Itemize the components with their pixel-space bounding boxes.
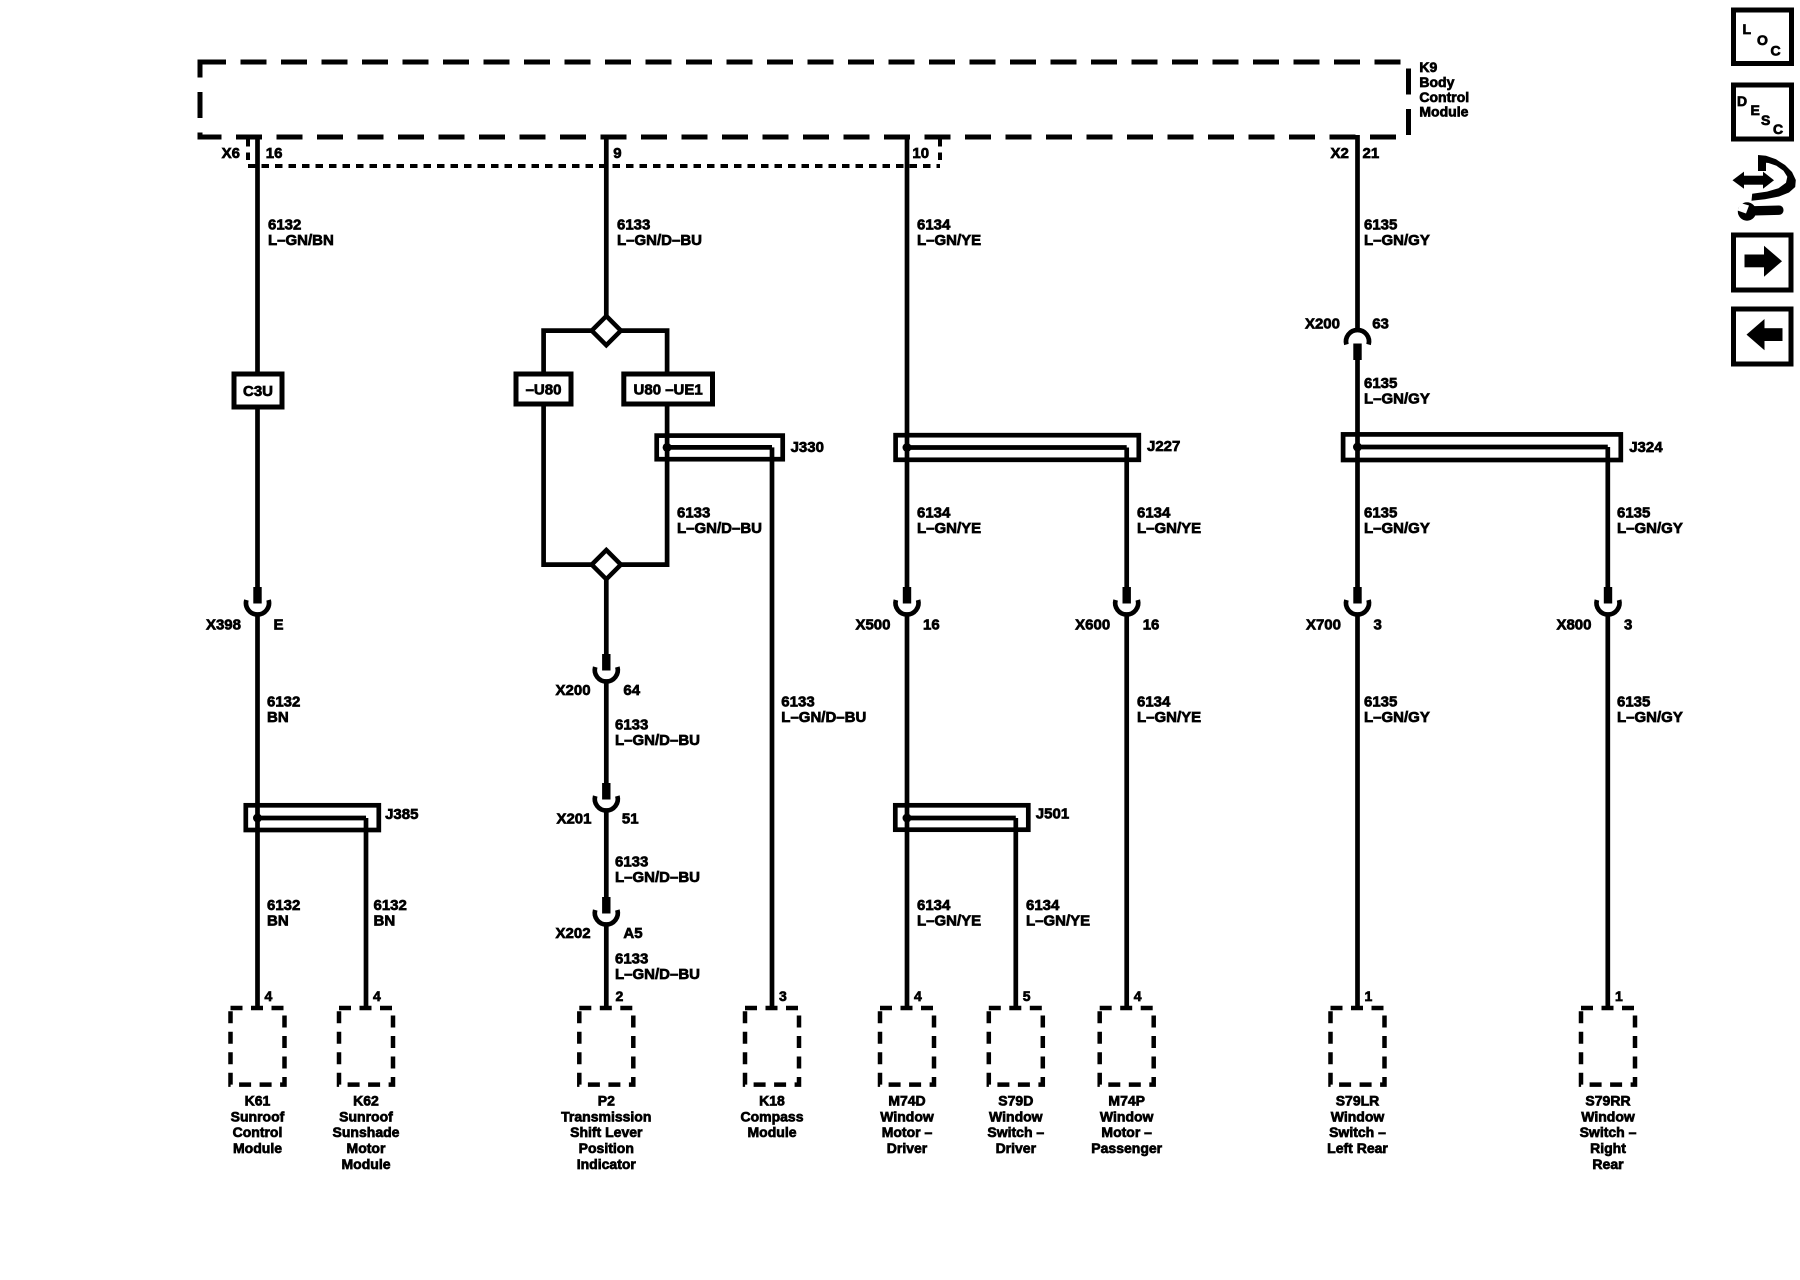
svg-text:X700: X700: [1306, 617, 1341, 634]
svg-text:L–GN/D–BU: L–GN/D–BU: [615, 869, 700, 886]
svg-text:J227: J227: [1147, 438, 1180, 455]
svg-text:BN: BN: [374, 913, 396, 930]
svg-text:Left Rear: Left Rear: [1327, 1140, 1388, 1156]
svg-text:Switch –: Switch –: [987, 1124, 1044, 1140]
svg-text:K62: K62: [353, 1093, 379, 1109]
svg-text:6135: 6135: [1364, 375, 1397, 392]
svg-text:3: 3: [1374, 617, 1382, 634]
svg-text:S79D: S79D: [998, 1093, 1033, 1109]
svg-text:Window: Window: [989, 1108, 1043, 1124]
svg-text:U80 –UE1: U80 –UE1: [634, 381, 703, 398]
svg-text:X202: X202: [556, 925, 591, 942]
svg-text:5: 5: [1023, 988, 1031, 1004]
svg-text:6132: 6132: [267, 694, 300, 711]
svg-text:6134: 6134: [1026, 897, 1060, 914]
svg-text:L: L: [1743, 21, 1752, 37]
svg-text:K9: K9: [1419, 59, 1437, 75]
svg-text:63: 63: [1372, 316, 1389, 333]
svg-text:K18: K18: [759, 1093, 785, 1109]
svg-text:Module: Module: [233, 1140, 282, 1156]
svg-text:Window: Window: [1581, 1108, 1635, 1124]
svg-text:L–GN/GY: L–GN/GY: [1617, 520, 1683, 537]
svg-text:L–GN/GY: L–GN/GY: [1364, 709, 1430, 726]
svg-text:L–GN/YE: L–GN/YE: [917, 913, 981, 930]
svg-text:Sunroof: Sunroof: [339, 1108, 393, 1124]
svg-text:X600: X600: [1075, 617, 1110, 634]
svg-text:4: 4: [914, 988, 922, 1004]
svg-text:X201: X201: [556, 811, 591, 828]
svg-text:6135: 6135: [1364, 694, 1397, 711]
svg-text:Control: Control: [233, 1124, 283, 1140]
svg-text:L–GN/YE: L–GN/YE: [1137, 709, 1201, 726]
svg-text:J330: J330: [791, 439, 824, 456]
svg-text:6134: 6134: [917, 505, 951, 522]
svg-text:21: 21: [1363, 145, 1380, 162]
svg-text:6133: 6133: [677, 505, 710, 522]
svg-text:Indicator: Indicator: [577, 1156, 637, 1172]
svg-text:6135: 6135: [1364, 217, 1397, 234]
svg-text:X200: X200: [1305, 316, 1340, 333]
svg-text:L–GN/D–BU: L–GN/D–BU: [617, 232, 702, 249]
svg-text:Driver: Driver: [887, 1140, 928, 1156]
svg-text:Sunroof: Sunroof: [231, 1108, 285, 1124]
svg-text:4: 4: [373, 988, 381, 1004]
svg-text:6135: 6135: [1617, 694, 1650, 711]
svg-text:3: 3: [779, 988, 787, 1004]
svg-text:1: 1: [1615, 988, 1623, 1004]
svg-text:L–GN/D–BU: L–GN/D–BU: [781, 709, 866, 726]
svg-text:6132: 6132: [374, 897, 407, 914]
svg-text:Module: Module: [748, 1124, 797, 1140]
svg-text:L–GN/GY: L–GN/GY: [1364, 520, 1430, 537]
svg-text:Sunshade: Sunshade: [333, 1124, 400, 1140]
svg-text:6133: 6133: [617, 217, 650, 234]
svg-text:X398: X398: [206, 617, 241, 634]
svg-text:X6: X6: [222, 145, 240, 162]
svg-text:E: E: [1751, 102, 1760, 118]
svg-text:C3U: C3U: [243, 383, 273, 400]
svg-text:C: C: [1773, 121, 1783, 137]
svg-text:1: 1: [1365, 988, 1373, 1004]
svg-text:Switch –: Switch –: [1580, 1124, 1637, 1140]
svg-text:L–GN/GY: L–GN/GY: [1364, 232, 1430, 249]
svg-text:D: D: [1737, 93, 1747, 109]
svg-text:S79RR: S79RR: [1585, 1093, 1630, 1109]
svg-text:Motor –: Motor –: [1101, 1124, 1152, 1140]
svg-text:L–GN/BN: L–GN/BN: [268, 232, 334, 249]
svg-text:6135: 6135: [1617, 505, 1650, 522]
svg-text:Motor –: Motor –: [882, 1124, 933, 1140]
svg-text:X800: X800: [1556, 617, 1591, 634]
svg-text:6133: 6133: [615, 854, 648, 871]
svg-text:Window: Window: [1100, 1108, 1154, 1124]
svg-text:4: 4: [265, 988, 273, 1004]
svg-text:Switch –: Switch –: [1329, 1124, 1386, 1140]
svg-text:6133: 6133: [615, 951, 648, 968]
svg-text:6133: 6133: [615, 717, 648, 734]
svg-text:Module: Module: [1419, 104, 1468, 120]
svg-text:Compass: Compass: [740, 1108, 803, 1124]
svg-text:A5: A5: [623, 925, 642, 942]
svg-text:Shift Lever: Shift Lever: [570, 1124, 643, 1140]
svg-text:Passenger: Passenger: [1091, 1140, 1162, 1156]
svg-text:6134: 6134: [917, 897, 951, 914]
svg-text:16: 16: [266, 145, 283, 162]
svg-text:Window: Window: [880, 1108, 934, 1124]
svg-text:P2: P2: [598, 1093, 615, 1109]
svg-text:Control: Control: [1419, 89, 1469, 105]
svg-text:L–GN/GY: L–GN/GY: [1364, 391, 1430, 408]
svg-text:S79LR: S79LR: [1336, 1093, 1380, 1109]
svg-text:6133: 6133: [781, 694, 814, 711]
svg-text:6134: 6134: [1137, 694, 1171, 711]
svg-text:6132: 6132: [268, 217, 301, 234]
svg-text:3: 3: [1624, 617, 1632, 634]
svg-text:Window: Window: [1331, 1108, 1385, 1124]
svg-text:L–GN/YE: L–GN/YE: [917, 520, 981, 537]
svg-text:J501: J501: [1036, 806, 1069, 823]
svg-text:Module: Module: [342, 1156, 391, 1172]
svg-text:K61: K61: [245, 1093, 271, 1109]
svg-text:6132: 6132: [267, 897, 300, 914]
svg-text:J385: J385: [385, 806, 418, 823]
svg-text:16: 16: [1143, 617, 1160, 634]
svg-text:L–GN/D–BU: L–GN/D–BU: [615, 966, 700, 983]
svg-text:6134: 6134: [1137, 505, 1171, 522]
svg-text:E: E: [274, 617, 284, 634]
svg-text:M74P: M74P: [1108, 1093, 1145, 1109]
svg-text:–U80: –U80: [526, 381, 562, 398]
svg-text:Motor: Motor: [347, 1140, 386, 1156]
svg-text:L–GN/YE: L–GN/YE: [917, 232, 981, 249]
svg-text:X2: X2: [1331, 145, 1349, 162]
svg-text:2: 2: [616, 988, 624, 1004]
svg-text:L–GN/GY: L–GN/GY: [1617, 709, 1683, 726]
svg-text:M74D: M74D: [888, 1093, 925, 1109]
svg-text:L–GN/D–BU: L–GN/D–BU: [615, 732, 700, 749]
svg-text:Right: Right: [1590, 1140, 1626, 1156]
svg-text:6135: 6135: [1364, 505, 1397, 522]
svg-text:6134: 6134: [917, 217, 951, 234]
svg-text:Driver: Driver: [996, 1140, 1037, 1156]
svg-text:Transmission: Transmission: [561, 1108, 651, 1124]
svg-text:4: 4: [1134, 988, 1142, 1004]
svg-text:L–GN/D–BU: L–GN/D–BU: [677, 520, 762, 537]
svg-text:J324: J324: [1629, 439, 1663, 456]
svg-text:51: 51: [622, 811, 639, 828]
svg-text:L–GN/YE: L–GN/YE: [1026, 913, 1090, 930]
svg-text:BN: BN: [267, 913, 289, 930]
svg-text:X500: X500: [855, 617, 890, 634]
svg-text:9: 9: [613, 145, 621, 162]
svg-text:BN: BN: [267, 709, 289, 726]
svg-text:Rear: Rear: [1592, 1156, 1624, 1172]
svg-text:C: C: [1771, 42, 1781, 58]
svg-text:X200: X200: [556, 682, 591, 699]
svg-text:Position: Position: [579, 1140, 634, 1156]
svg-text:O: O: [1757, 32, 1768, 48]
svg-text:L–GN/YE: L–GN/YE: [1137, 520, 1201, 537]
svg-text:S: S: [1761, 112, 1770, 128]
svg-text:10: 10: [912, 145, 929, 162]
svg-text:Body: Body: [1419, 74, 1454, 90]
svg-text:64: 64: [623, 682, 640, 699]
svg-text:16: 16: [923, 617, 940, 634]
